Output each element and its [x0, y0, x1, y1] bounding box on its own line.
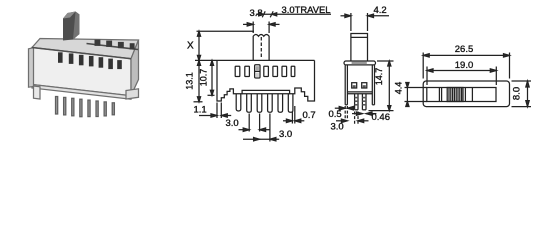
svg-text:4.4: 4.4	[394, 82, 404, 95]
3D front slots	[58, 52, 122, 69]
3D perspective view of slide switch	[29, 39, 139, 100]
svg-text:3.0: 3.0	[331, 122, 344, 133]
base band	[32, 85, 131, 100]
top view hatched knob	[447, 88, 463, 102]
svg-text:3.0: 3.0	[279, 129, 292, 140]
side knob	[351, 34, 368, 62]
3D pins	[56, 97, 115, 117]
dimension 13.1	[194, 60, 203, 101]
left end cap	[29, 48, 34, 87]
dimension 10.7	[208, 60, 215, 95]
svg-text:10.7: 10.7	[199, 69, 209, 87]
svg-text:3.0: 3.0	[226, 118, 239, 129]
dimension 1.1	[199, 103, 231, 119]
3D top slots	[95, 40, 135, 50]
dimension 14.7	[369, 61, 394, 111]
dimension 3.0 first	[239, 114, 271, 132]
dimension 4.2	[341, 13, 390, 31]
dimension 3.0 TRAVEL	[256, 11, 331, 17]
left leg	[34, 86, 41, 99]
front special hole (slider position)	[255, 65, 260, 78]
side plate	[347, 92, 372, 94]
side holes	[352, 83, 367, 88]
3D front-top edge	[32, 48, 131, 59]
side pins	[355, 94, 366, 110]
dimension 0.46	[352, 112, 376, 115]
top view outer rect	[423, 81, 509, 107]
top view dividers left	[439, 88, 441, 102]
dimension 3.0 side	[336, 112, 369, 125]
side top flange	[344, 61, 376, 65]
front knob stem with wavy top	[253, 35, 269, 61]
3D knob	[63, 12, 80, 41]
dimension 19.0	[427, 67, 496, 86]
dimension 0.7	[283, 106, 304, 124]
right foot	[126, 89, 139, 99]
3D cover plateau edge	[87, 44, 139, 50]
svg-text:0.5: 0.5	[329, 109, 342, 120]
svg-text:4.2: 4.2	[374, 5, 387, 16]
dimension X	[195, 31, 254, 60]
right end face	[131, 40, 139, 96]
front body	[217, 59, 315, 61]
front face	[32, 48, 131, 96]
dimension 4.4	[405, 83, 427, 107]
svg-text:26.5: 26.5	[455, 44, 474, 55]
front holes row	[235, 66, 295, 76]
front pins (6)	[236, 94, 293, 112]
top view inner rect	[427, 88, 496, 102]
svg-text:1.1: 1.1	[194, 105, 207, 116]
dimension 8.0	[512, 81, 532, 107]
svg-text:19.0: 19.0	[455, 60, 474, 71]
dimension 3.8	[243, 22, 280, 34]
knob centerline dashed	[260, 37, 262, 59]
svg-text:X: X	[187, 41, 194, 52]
top face	[32, 39, 139, 59]
dimension 0.5	[335, 106, 354, 119]
svg-text:0.46: 0.46	[372, 112, 391, 123]
dimension 26.5	[423, 53, 509, 79]
dimension 3.0 second	[243, 114, 279, 142]
top view dividers right	[465, 88, 472, 102]
svg-text:8.0: 8.0	[512, 87, 523, 100]
side body walls	[345, 65, 374, 105]
svg-text:3.0TRAVEL: 3.0TRAVEL	[282, 5, 331, 16]
svg-text:13.1: 13.1	[185, 72, 195, 90]
front bottom profile with ears and plate	[217, 60, 315, 101]
svg-text:0.7: 0.7	[303, 110, 316, 121]
front plate bottom edge	[242, 93, 290, 95]
svg-text:14.7: 14.7	[374, 68, 384, 86]
